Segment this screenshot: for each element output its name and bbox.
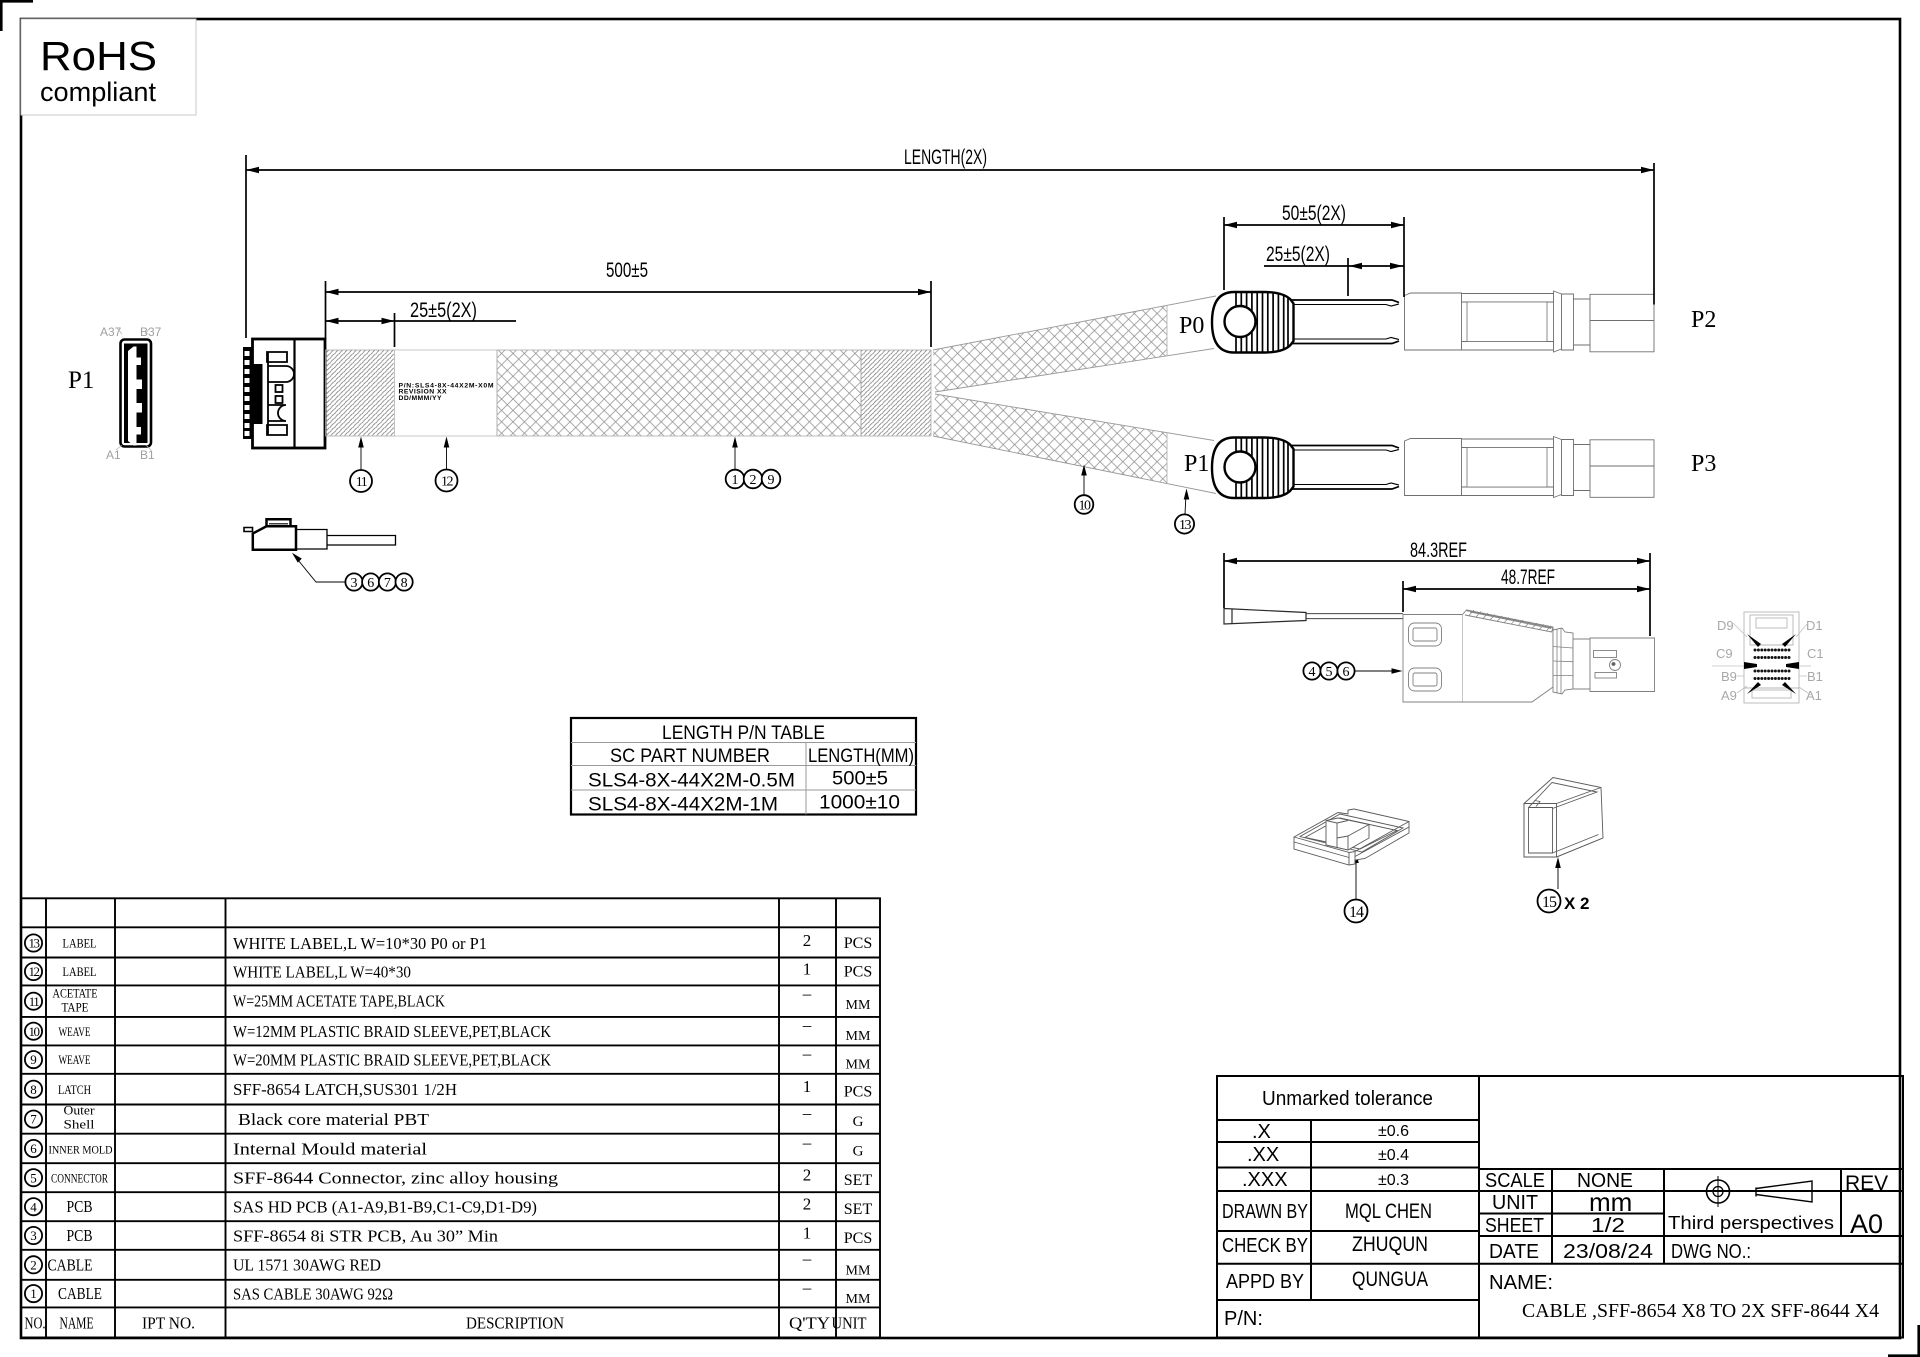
svg-text:CABLE: CABLE [48, 1255, 93, 1274]
svg-text:500±5: 500±5 [832, 769, 888, 790]
svg-text:B1: B1 [1807, 669, 1823, 684]
svg-text:UL 1571 30AWG RED: UL 1571 30AWG RED [233, 1256, 381, 1275]
svg-text:CHECK BY: CHECK BY [1222, 1235, 1308, 1257]
svg-text:48.7REF: 48.7REF [1501, 566, 1555, 589]
svg-text:2: 2 [803, 1195, 812, 1214]
svg-text:SLS4-8X-44X2M-1M: SLS4-8X-44X2M-1M [588, 795, 778, 816]
svg-text:A1: A1 [1806, 688, 1822, 703]
svg-text:PCS: PCS [844, 935, 872, 952]
svg-text:UNIT: UNIT [832, 1314, 867, 1333]
svg-text:W=12MM PLASTIC BRAID SLEEVE,PE: W=12MM PLASTIC BRAID SLEEVE,PET,BLACK [233, 1022, 552, 1041]
svg-text:LENGTH(MM): LENGTH(MM) [808, 746, 914, 767]
svg-text:MM: MM [846, 1264, 871, 1279]
svg-text:REV: REV [1845, 1172, 1888, 1195]
svg-text:DWG NO.:: DWG NO.: [1671, 1241, 1751, 1263]
svg-text:±0.3: ±0.3 [1378, 1172, 1409, 1189]
svg-text:3: 3 [30, 1228, 37, 1243]
svg-text:8: 8 [401, 576, 408, 591]
svg-text:PCS: PCS [844, 1230, 872, 1247]
svg-text:.XXX: .XXX [1242, 1169, 1288, 1191]
svg-text:NAME:: NAME: [1489, 1272, 1553, 1294]
svg-text:P3: P3 [1691, 451, 1716, 477]
svg-text:A0: A0 [1850, 1209, 1883, 1239]
svg-text:1: 1 [732, 473, 739, 488]
svg-text:ACETATE: ACETATE [53, 987, 98, 1001]
svg-text:PCB: PCB [67, 1197, 93, 1216]
svg-text:11: 11 [29, 994, 40, 1009]
svg-text:RoHS: RoHS [40, 33, 157, 79]
svg-text:DESCRIPTION: DESCRIPTION [466, 1314, 564, 1333]
svg-text:–: – [802, 984, 812, 1003]
svg-text:–: – [802, 1249, 812, 1268]
svg-text:MQL CHEN: MQL CHEN [1345, 1200, 1432, 1223]
svg-text:25±5(2X): 25±5(2X) [410, 299, 477, 322]
svg-text:±0.4: ±0.4 [1378, 1147, 1409, 1164]
svg-text:WHITE LABEL,L W=40*30: WHITE LABEL,L W=40*30 [233, 963, 411, 982]
svg-text:2: 2 [803, 1166, 812, 1185]
svg-text:–: – [802, 1133, 812, 1152]
svg-text:DRAWN BY: DRAWN BY [1222, 1201, 1308, 1223]
svg-text:8: 8 [30, 1082, 37, 1097]
svg-text:2: 2 [30, 1257, 37, 1272]
svg-text:C1: C1 [1807, 646, 1824, 661]
svg-text:2: 2 [750, 473, 757, 488]
svg-text:1: 1 [803, 1077, 812, 1096]
svg-text:G: G [853, 1144, 864, 1160]
svg-text:Internal Mould material: Internal Mould material [233, 1140, 427, 1159]
svg-text:CONNECTOR: CONNECTOR [51, 1171, 108, 1185]
svg-text:50±5(2X): 50±5(2X) [1282, 202, 1346, 225]
svg-text:P1: P1 [68, 367, 94, 394]
svg-text:Black core material PBT: Black core material PBT [238, 1110, 430, 1129]
svg-text:500±5: 500±5 [606, 259, 648, 282]
svg-text:SET: SET [844, 1172, 873, 1189]
svg-text:SCALE: SCALE [1485, 1170, 1545, 1192]
svg-text:LATCH: LATCH [58, 1082, 91, 1097]
svg-text:.XX: .XX [1247, 1144, 1279, 1166]
svg-text:9: 9 [30, 1052, 37, 1067]
svg-text:10: 10 [29, 1024, 40, 1039]
svg-text:D9: D9 [1717, 618, 1734, 633]
svg-text:Third perspectives: Third perspectives [1668, 1213, 1834, 1233]
svg-text:P0: P0 [1179, 313, 1204, 339]
svg-text:MM: MM [846, 998, 871, 1013]
svg-text:1: 1 [803, 1224, 812, 1243]
svg-text:23/08/24: 23/08/24 [1563, 1241, 1653, 1263]
svg-text:DD/MMM/YY: DD/MMM/YY [399, 395, 442, 402]
svg-text:–: – [802, 1104, 812, 1123]
svg-text:CABLE ,SFF-8654 X8 TO 2X SFF-8: CABLE ,SFF-8654 X8 TO 2X SFF-8644 X4 [1522, 1301, 1879, 1322]
svg-text:MM: MM [846, 1058, 871, 1073]
svg-text:MM: MM [846, 1029, 871, 1044]
svg-text:P1: P1 [1184, 451, 1209, 477]
svg-text:P2: P2 [1691, 307, 1716, 333]
svg-text:1000±10: 1000±10 [819, 793, 900, 814]
svg-text:84.3REF: 84.3REF [1410, 539, 1467, 562]
svg-text:5: 5 [1326, 665, 1333, 680]
svg-text:–: – [802, 1044, 812, 1063]
svg-text:WEAVE: WEAVE [59, 1024, 91, 1039]
svg-text:SFF-8654 LATCH,SUS301 1/2H: SFF-8654 LATCH,SUS301 1/2H [233, 1080, 457, 1099]
svg-text:PCS: PCS [844, 1084, 872, 1101]
svg-text:B1: B1 [140, 448, 155, 462]
svg-text:PCB: PCB [67, 1226, 93, 1245]
svg-text:14: 14 [1349, 904, 1364, 921]
svg-text:mm: mm [1589, 1187, 1632, 1217]
svg-text:–: – [802, 1016, 812, 1035]
svg-text:A1: A1 [106, 448, 121, 462]
svg-text:Shell: Shell [64, 1117, 95, 1132]
svg-text:NAME: NAME [60, 1314, 94, 1333]
svg-text:11: 11 [356, 475, 368, 490]
svg-text:4: 4 [30, 1199, 37, 1214]
svg-text:SFF-8644 Connector, zinc alloy: SFF-8644 Connector, zinc alloy housing [233, 1169, 559, 1188]
svg-text:APPD BY: APPD BY [1226, 1271, 1304, 1293]
svg-text:DATE: DATE [1489, 1241, 1539, 1263]
svg-text:9: 9 [768, 473, 775, 488]
svg-text:3: 3 [351, 576, 358, 591]
svg-text:SET: SET [844, 1201, 873, 1218]
svg-text:25±5(2X): 25±5(2X) [1266, 243, 1330, 266]
svg-text:Q'TY: Q'TY [789, 1314, 830, 1333]
svg-text:WEAVE: WEAVE [59, 1052, 91, 1067]
svg-text:TAPE: TAPE [62, 1001, 89, 1015]
svg-text:SAS HD PCB (A1-A9,B1-B9,C1-C9,: SAS HD PCB (A1-A9,B1-B9,C1-C9,D1-D9) [233, 1198, 537, 1217]
svg-text:12: 12 [441, 475, 454, 490]
svg-text:IPT NO.: IPT NO. [142, 1314, 195, 1333]
svg-text:1/2: 1/2 [1591, 1215, 1625, 1237]
svg-text:6: 6 [30, 1141, 37, 1156]
svg-text:WHITE LABEL,L W=10*30 P0 or P1: WHITE LABEL,L W=10*30 P0 or P1 [233, 934, 487, 953]
svg-text:1: 1 [803, 960, 812, 979]
svg-text:compliant: compliant [40, 77, 156, 107]
svg-text:SLS4-8X-44X2M-0.5M: SLS4-8X-44X2M-0.5M [588, 771, 795, 792]
svg-text:SAS CABLE 30AWG 92Ω: SAS CABLE 30AWG 92Ω [233, 1285, 393, 1304]
svg-text:C9: C9 [1716, 646, 1733, 661]
svg-text:7: 7 [30, 1112, 37, 1127]
svg-text:B37: B37 [140, 325, 162, 339]
svg-text:LENGTH P/N TABLE: LENGTH P/N TABLE [662, 723, 825, 744]
svg-text:Outer: Outer [64, 1103, 96, 1118]
svg-text:7: 7 [384, 576, 391, 591]
svg-text:6: 6 [1343, 665, 1350, 680]
svg-text:NO.: NO. [25, 1314, 46, 1333]
svg-text:ZHUQUN: ZHUQUN [1352, 1233, 1428, 1256]
svg-text:4: 4 [1309, 665, 1316, 680]
svg-text:G: G [853, 1114, 864, 1130]
svg-text:15: 15 [1542, 894, 1557, 911]
svg-text:INNER MOLD: INNER MOLD [49, 1142, 113, 1156]
svg-text:X 2: X 2 [1564, 894, 1590, 913]
svg-text:D1: D1 [1806, 618, 1823, 633]
svg-text:A37: A37 [100, 325, 122, 339]
svg-text:B9: B9 [1721, 669, 1737, 684]
svg-text:CABLE: CABLE [58, 1284, 102, 1303]
svg-text:±0.6: ±0.6 [1378, 1123, 1409, 1140]
svg-text:PCS: PCS [844, 964, 872, 981]
svg-text:W=25MM ACETATE TAPE,BLACK: W=25MM ACETATE TAPE,BLACK [233, 992, 446, 1011]
svg-text:LABEL: LABEL [63, 936, 97, 951]
svg-text:A9: A9 [1721, 688, 1737, 703]
svg-text:MM: MM [846, 1292, 871, 1307]
svg-text:SHEET: SHEET [1485, 1215, 1544, 1237]
svg-text:12: 12 [29, 964, 40, 979]
svg-text:QUNGUA: QUNGUA [1352, 1268, 1428, 1291]
svg-text:–: – [802, 1278, 812, 1297]
svg-text:P/N:: P/N: [1224, 1308, 1263, 1330]
svg-text:1: 1 [30, 1286, 37, 1301]
svg-text:2: 2 [803, 931, 812, 950]
svg-text:6: 6 [367, 576, 374, 591]
svg-text:13: 13 [1179, 518, 1192, 533]
svg-text:SC PART NUMBER: SC PART NUMBER [610, 746, 770, 767]
svg-text:13: 13 [29, 936, 40, 951]
svg-text:5: 5 [30, 1170, 37, 1185]
svg-text:Unmarked tolerance: Unmarked tolerance [1262, 1088, 1433, 1110]
svg-text:UNIT: UNIT [1492, 1192, 1538, 1214]
svg-text:SFF-8654 8i STR PCB, Au 30” Mi: SFF-8654 8i STR PCB, Au 30” Min [233, 1227, 499, 1246]
svg-text:LENGTH(2X): LENGTH(2X) [904, 146, 987, 169]
svg-text:W=20MM PLASTIC BRAID SLEEVE,PE: W=20MM PLASTIC BRAID SLEEVE,PET,BLACK [233, 1051, 552, 1070]
svg-text:LABEL: LABEL [63, 964, 97, 979]
svg-text:10: 10 [1079, 499, 1092, 514]
svg-text:.X: .X [1252, 1121, 1271, 1143]
